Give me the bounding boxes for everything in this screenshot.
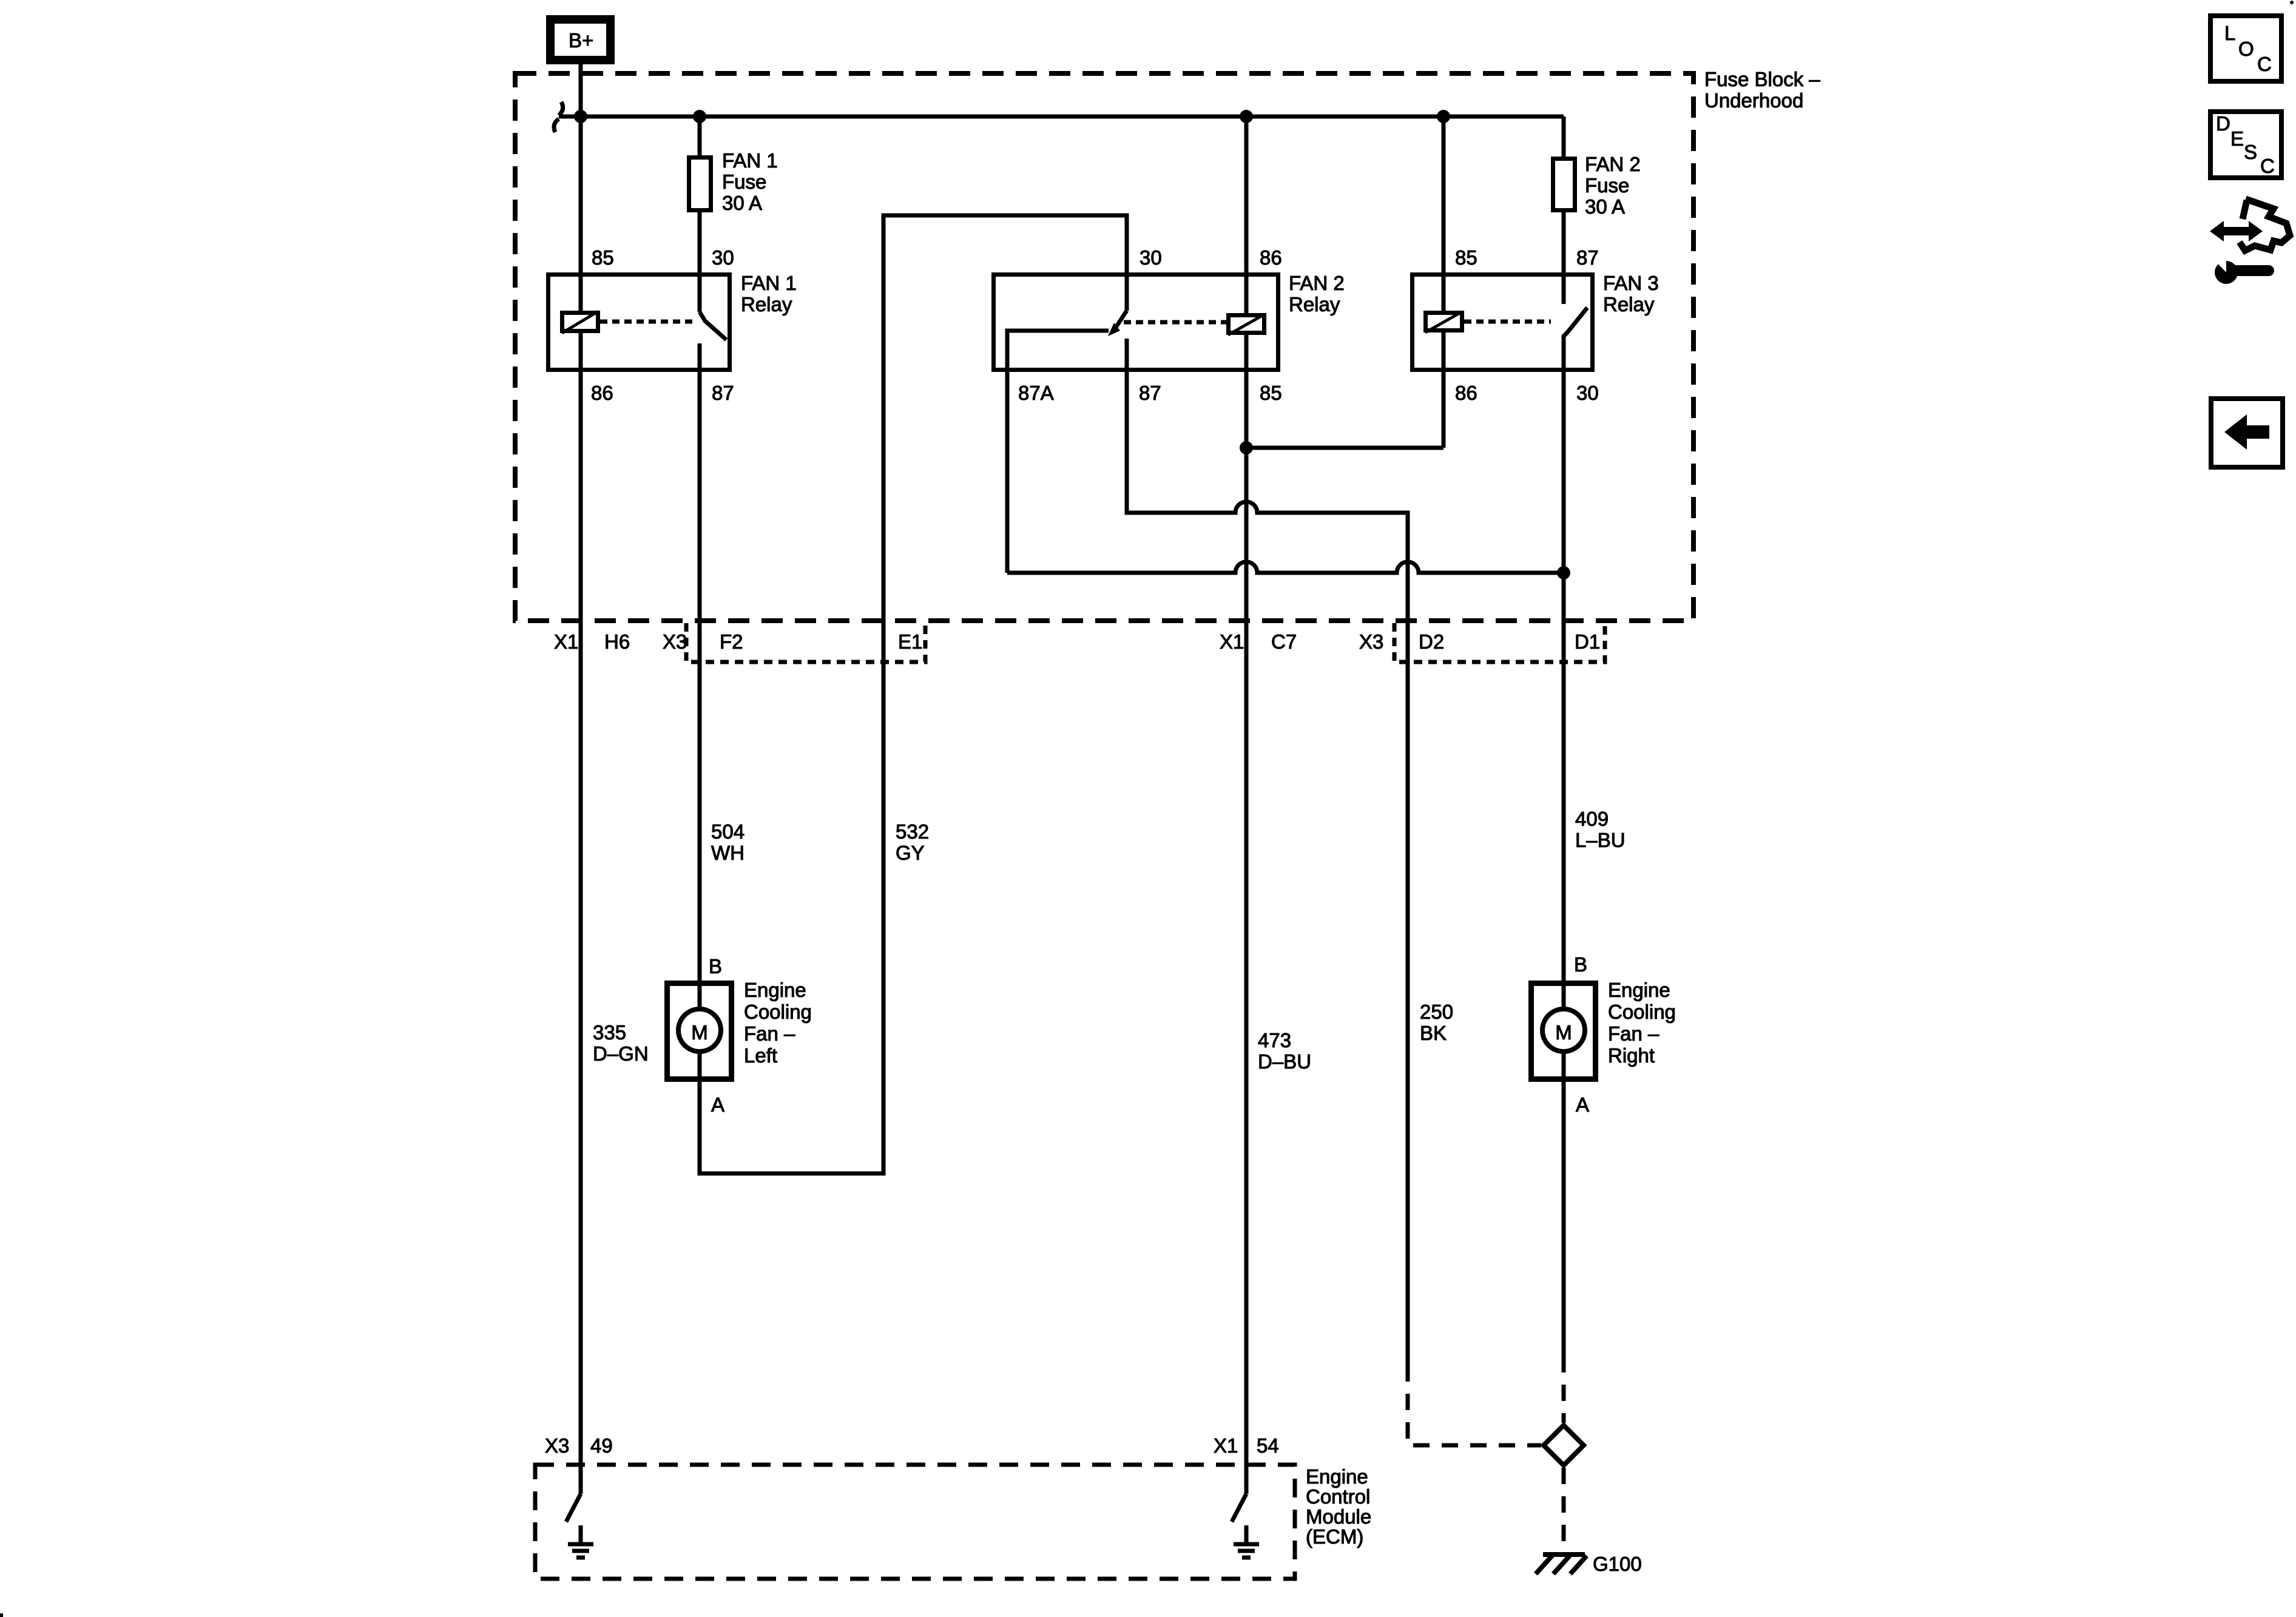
svg-text:A: A [711, 1093, 724, 1116]
svg-text:49: 49 [590, 1434, 613, 1457]
svg-text:Relay: Relay [741, 293, 792, 316]
svg-text:86: 86 [591, 382, 613, 404]
svg-text:X3: X3 [545, 1434, 569, 1457]
svg-text:87A: 87A [1018, 382, 1054, 404]
svg-text:Underhood: Underhood [1704, 89, 1803, 112]
svg-text:X1: X1 [1214, 1434, 1238, 1457]
svg-text:Cooling: Cooling [744, 1001, 812, 1023]
svg-text:E1: E1 [898, 630, 922, 653]
svg-text:250: 250 [1420, 1001, 1453, 1023]
svg-text:Engine: Engine [1608, 979, 1670, 1001]
svg-text:D–BU: D–BU [1258, 1050, 1311, 1073]
svg-text:D1: D1 [1575, 630, 1600, 653]
svg-text:X1: X1 [554, 630, 578, 653]
svg-text:B+: B+ [569, 29, 593, 52]
svg-text:87: 87 [1139, 382, 1161, 404]
svg-text:C: C [2257, 53, 2272, 75]
svg-text:Cooling: Cooling [1608, 1001, 1676, 1023]
svg-text:Fuse: Fuse [722, 170, 766, 193]
svg-text:87: 87 [712, 382, 734, 404]
svg-text:A: A [1576, 1093, 1589, 1116]
svg-text:409: 409 [1575, 808, 1609, 830]
svg-text:S: S [2244, 141, 2257, 163]
svg-text:Engine: Engine [744, 979, 806, 1001]
svg-text:L–BU: L–BU [1575, 829, 1626, 851]
svg-text:E: E [2230, 127, 2244, 150]
svg-text:F2: F2 [720, 630, 743, 653]
svg-text:Fan –: Fan – [744, 1022, 795, 1045]
svg-text:L: L [2224, 22, 2235, 44]
svg-text:Left: Left [744, 1044, 777, 1067]
svg-text:30 A: 30 A [722, 192, 762, 214]
svg-text:B: B [709, 955, 722, 977]
svg-text:532: 532 [896, 820, 929, 843]
svg-text:BK: BK [1420, 1022, 1447, 1044]
svg-text:X1: X1 [1220, 630, 1244, 653]
svg-text:D: D [2216, 112, 2230, 135]
svg-text:WH: WH [711, 842, 745, 864]
svg-text:B: B [1574, 953, 1587, 976]
svg-text:Right: Right [1608, 1044, 1655, 1067]
svg-text:335: 335 [593, 1021, 626, 1044]
svg-text:FAN 1: FAN 1 [722, 149, 778, 172]
svg-text:30 A: 30 A [1585, 195, 1625, 218]
svg-text:(ECM): (ECM) [1306, 1525, 1363, 1548]
svg-text:Module: Module [1306, 1505, 1371, 1528]
svg-text:Control: Control [1306, 1485, 1370, 1508]
svg-text:30: 30 [1140, 246, 1162, 269]
svg-text:Relay: Relay [1289, 293, 1340, 316]
svg-text:D–GN: D–GN [593, 1042, 649, 1065]
svg-text:M: M [691, 1021, 708, 1044]
svg-text:FAN 2: FAN 2 [1585, 153, 1641, 175]
svg-text:85: 85 [1260, 382, 1282, 404]
svg-text:54: 54 [1257, 1434, 1279, 1457]
svg-text:473: 473 [1258, 1029, 1291, 1052]
svg-text:87: 87 [1576, 246, 1599, 269]
svg-text:Fuse: Fuse [1585, 174, 1629, 197]
svg-text:30: 30 [712, 246, 734, 269]
svg-text:FAN 1: FAN 1 [741, 272, 797, 294]
svg-text:X3: X3 [1359, 630, 1383, 653]
svg-text:86: 86 [1260, 246, 1282, 269]
svg-text:C: C [2260, 155, 2275, 177]
svg-text:FAN 3: FAN 3 [1603, 272, 1659, 294]
svg-text:Fan –: Fan – [1608, 1022, 1660, 1045]
svg-text:86: 86 [1455, 382, 1477, 404]
svg-text:D2: D2 [1419, 630, 1444, 653]
svg-text:M: M [1555, 1021, 1572, 1044]
svg-text:504: 504 [711, 820, 745, 843]
svg-text:C7: C7 [1271, 630, 1297, 653]
svg-text:O: O [2238, 38, 2254, 60]
svg-text:FAN 2: FAN 2 [1289, 272, 1345, 294]
svg-text:GY: GY [896, 842, 925, 864]
svg-text:30: 30 [1576, 382, 1599, 404]
svg-text:85: 85 [1455, 246, 1477, 269]
svg-text:Fuse Block –: Fuse Block – [1704, 68, 1820, 90]
svg-text:X3: X3 [663, 630, 687, 653]
svg-text:H6: H6 [604, 630, 630, 653]
svg-text:Engine: Engine [1306, 1465, 1368, 1488]
svg-text:85: 85 [592, 246, 614, 269]
svg-text:Relay: Relay [1603, 293, 1655, 316]
svg-text:G100: G100 [1593, 1553, 1642, 1575]
